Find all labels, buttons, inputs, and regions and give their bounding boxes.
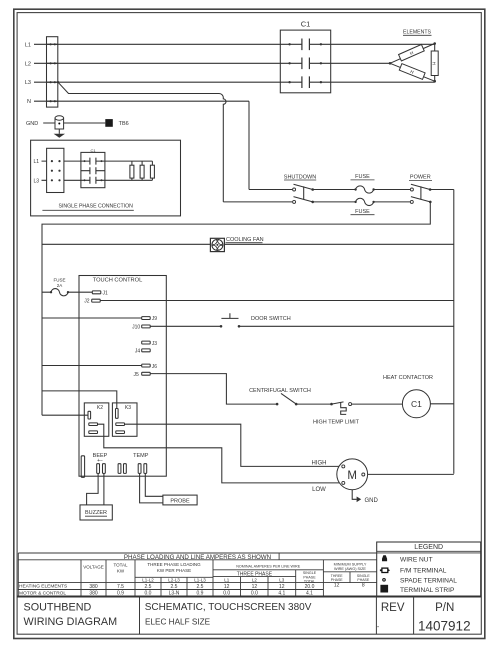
svg-text:PHASE: PHASE xyxy=(357,578,370,582)
svg-text:SHUTDOWN: SHUTDOWN xyxy=(284,174,316,180)
svg-text:TOTAL: TOTAL xyxy=(113,563,128,568)
svg-text:DOOR SWITCH: DOOR SWITCH xyxy=(251,316,291,322)
svg-text:TEMP: TEMP xyxy=(133,453,149,459)
svg-text:LEGEND: LEGEND xyxy=(414,544,443,551)
svg-text:WIRE (AWG) SIZE: WIRE (AWG) SIZE xyxy=(334,567,366,571)
svg-text:M: M xyxy=(347,470,357,482)
svg-text:J3: J3 xyxy=(152,341,158,347)
svg-text:L2: L2 xyxy=(252,578,258,583)
svg-text:12: 12 xyxy=(334,583,340,589)
svg-text:L1: L1 xyxy=(25,42,31,48)
svg-text:PROBE: PROBE xyxy=(170,499,190,505)
svg-text:J1: J1 xyxy=(103,290,109,296)
svg-text:TOTAL: TOTAL xyxy=(304,579,315,583)
svg-text:K3: K3 xyxy=(125,405,131,411)
svg-text:J10: J10 xyxy=(132,325,140,331)
svg-text:J5: J5 xyxy=(134,372,140,378)
svg-text:PHASE LOADING AND LINE AMPERES: PHASE LOADING AND LINE AMPERES AS SHOWN xyxy=(124,554,271,561)
svg-text:2.5: 2.5 xyxy=(171,584,178,590)
svg-text:L3: L3 xyxy=(279,578,285,583)
svg-text:L1: L1 xyxy=(34,159,40,165)
svg-text:PHASE: PHASE xyxy=(331,578,344,582)
svg-text:LOW: LOW xyxy=(312,487,326,493)
svg-text:KW: KW xyxy=(117,569,125,574)
svg-text:HEAT CONTACTOR: HEAT CONTACTOR xyxy=(383,375,433,381)
svg-text:GND: GND xyxy=(365,498,379,504)
svg-text:SOUTHBEND: SOUTHBEND xyxy=(24,602,92,614)
svg-text:SPADE TERMINAL: SPADE TERMINAL xyxy=(400,577,457,584)
svg-text:WIRE NUT: WIRE NUT xyxy=(400,556,433,563)
svg-text:12: 12 xyxy=(252,584,258,590)
svg-text:12: 12 xyxy=(279,584,285,590)
svg-text:2A: 2A xyxy=(57,283,63,288)
svg-text:J4: J4 xyxy=(135,349,141,355)
svg-text:P/N: P/N xyxy=(435,602,454,614)
svg-text:L1-L2: L1-L2 xyxy=(142,578,154,583)
svg-text:WIRING DIAGRAM: WIRING DIAGRAM xyxy=(24,616,118,628)
svg-text:REV: REV xyxy=(381,602,405,614)
svg-text:HIGH TEMP LIMIT: HIGH TEMP LIMIT xyxy=(313,420,360,426)
svg-text:J9: J9 xyxy=(152,316,158,322)
svg-text:FUSE: FUSE xyxy=(53,278,65,283)
svg-text:C1: C1 xyxy=(301,19,311,28)
svg-text:SINGLE PHASE CONNECTION: SINGLE PHASE CONNECTION xyxy=(59,204,134,210)
svg-text:7.5: 7.5 xyxy=(117,584,124,590)
svg-text:THREE PHASE: THREE PHASE xyxy=(237,571,273,577)
svg-text:HIGH: HIGH xyxy=(312,461,327,467)
svg-text:KW PER PHASE: KW PER PHASE xyxy=(157,568,191,573)
svg-text:TB6: TB6 xyxy=(119,121,129,127)
svg-text:2.5: 2.5 xyxy=(145,584,152,590)
svg-text:NOMINAL AMPERES PER LINE WIRE: NOMINAL AMPERES PER LINE WIRE xyxy=(236,564,301,568)
svg-text:FUSE: FUSE xyxy=(355,209,370,215)
svg-text:L1: L1 xyxy=(224,578,230,583)
svg-text:J6: J6 xyxy=(152,364,158,370)
svg-text:GND: GND xyxy=(26,121,38,127)
svg-text:THREE PHASE LOADING: THREE PHASE LOADING xyxy=(147,562,201,567)
svg-text:2.5: 2.5 xyxy=(197,584,204,590)
svg-text:BUZZER: BUZZER xyxy=(85,510,107,516)
svg-text:K2: K2 xyxy=(97,405,103,411)
svg-text:POWER: POWER xyxy=(410,175,431,181)
svg-text:F/M TERMINAL: F/M TERMINAL xyxy=(400,568,447,575)
svg-text:C1: C1 xyxy=(411,399,422,409)
svg-text:H: H xyxy=(431,62,436,65)
svg-text:TOUCH CONTROL: TOUCH CONTROL xyxy=(93,278,143,284)
svg-text:N: N xyxy=(27,99,31,105)
svg-text:FUSE: FUSE xyxy=(355,174,370,180)
svg-text:J2: J2 xyxy=(84,299,90,305)
svg-text:12: 12 xyxy=(224,584,230,590)
svg-text:8: 8 xyxy=(362,583,365,589)
svg-text:MINIMUM SUPPLY: MINIMUM SUPPLY xyxy=(334,562,367,566)
svg-text:TERMINAL STRIP: TERMINAL STRIP xyxy=(400,587,455,594)
svg-text:L3: L3 xyxy=(34,178,40,184)
svg-text:1407912: 1407912 xyxy=(418,619,471,634)
svg-text:380: 380 xyxy=(89,584,98,590)
svg-text:L3: L3 xyxy=(25,80,31,86)
svg-text:L1-L3: L1-L3 xyxy=(194,578,206,583)
svg-text:L2-L3: L2-L3 xyxy=(168,578,180,583)
svg-text:-: - xyxy=(377,624,380,631)
svg-text:20.0: 20.0 xyxy=(305,584,315,590)
svg-text:HEATING ELEMENTS: HEATING ELEMENTS xyxy=(19,584,67,590)
svg-text:VOLTAGE: VOLTAGE xyxy=(83,565,104,570)
svg-text:+−: +− xyxy=(97,458,103,464)
svg-text:CENTRIFUGAL SWITCH: CENTRIFUGAL SWITCH xyxy=(249,388,311,394)
svg-text:L2: L2 xyxy=(25,61,31,67)
svg-text:ELEC HALF SIZE: ELEC HALF SIZE xyxy=(145,618,211,627)
svg-text:ELEMENTS: ELEMENTS xyxy=(403,30,432,36)
svg-text:SCHEMATIC, TOUCHSCREEN 380V: SCHEMATIC, TOUCHSCREEN 380V xyxy=(145,602,312,613)
